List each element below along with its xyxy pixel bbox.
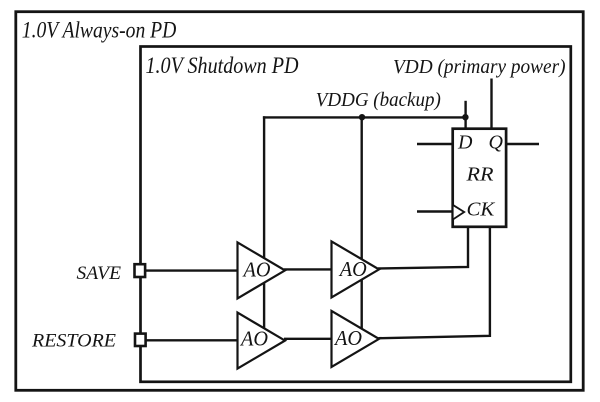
- svg-text:D: D: [457, 131, 473, 153]
- wire VDDG pin stub into flip-flop: [464, 101, 466, 130]
- port RESTORE (input pin square): [135, 334, 146, 346]
- wire AO4 output up to flip-flop bottom (RESTORE): [379, 226, 490, 338]
- svg-text:Q: Q: [489, 131, 504, 153]
- wire D input stub: [417, 143, 454, 145]
- svg-text:RESTORE: RESTORE: [31, 331, 116, 351]
- label net VDD (primary power): [393, 56, 566, 78]
- wire Q output stub: [505, 143, 539, 145]
- buffer AO3 (RESTORE stage 1): [238, 313, 286, 369]
- svg-text:AO: AO: [239, 327, 268, 351]
- label RESTORE: [31, 331, 116, 351]
- wire AO2 output up to flip-flop bottom (SAVE): [378, 226, 468, 269]
- svg-text:1.0V Always-on PD: 1.0V Always-on PD: [22, 18, 177, 43]
- pin label CK: [467, 199, 497, 221]
- label "1.0V Always-on PD": [22, 18, 177, 43]
- svg-text:1.0V Shutdown PD: 1.0V Shutdown PD: [146, 53, 299, 78]
- label net VDDG (backup): [316, 89, 441, 111]
- wire VDDG drop to AO buffer column 1: [263, 116, 265, 336]
- label "1.0V Shutdown PD": [146, 53, 299, 78]
- label SAVE: [77, 264, 122, 284]
- flip-flop RR (retention register): [453, 129, 506, 227]
- junction dot VDDG / column 2 drop: [359, 114, 365, 120]
- wire RESTORE input to buffer AO3: [145, 339, 239, 341]
- svg-text:AO: AO: [242, 258, 271, 282]
- wire VDDG horizontal: [263, 116, 466, 118]
- svg-text:SAVE: SAVE: [77, 264, 122, 284]
- wire AO1 output to AO2 input: [284, 268, 333, 270]
- wire VDD vertical stub into flip-flop: [490, 79, 492, 131]
- svg-text:CK: CK: [467, 199, 497, 221]
- clock wedge on CK pin: [453, 205, 465, 220]
- pin label Q: [489, 131, 504, 153]
- wire CK input stub: [417, 210, 454, 212]
- label RR: [465, 164, 493, 186]
- svg-text:RR: RR: [465, 164, 493, 186]
- buffer AO4 (RESTORE stage 2): [332, 311, 380, 367]
- wire VDDG drop to AO buffer column 2: [361, 117, 363, 336]
- svg-text:AO: AO: [338, 257, 367, 281]
- buffer AO2 (SAVE stage 2): [332, 241, 380, 297]
- svg-text:VDDG (backup): VDDG (backup): [316, 89, 441, 111]
- svg-text:AO: AO: [333, 326, 362, 350]
- port SAVE (input pin square): [135, 264, 146, 277]
- pin label D: [457, 131, 473, 153]
- wire SAVE input to buffer AO1: [145, 269, 239, 271]
- junction dot VDDG / flip-flop pin: [462, 114, 468, 120]
- svg-text:VDD (primary power): VDD (primary power): [393, 56, 566, 78]
- inner power domain box 1.0V Shutdown PD: [141, 47, 571, 382]
- buffer AO1 (SAVE stage 1): [238, 242, 286, 298]
- wire AO3 output to AO4 input: [284, 338, 333, 340]
